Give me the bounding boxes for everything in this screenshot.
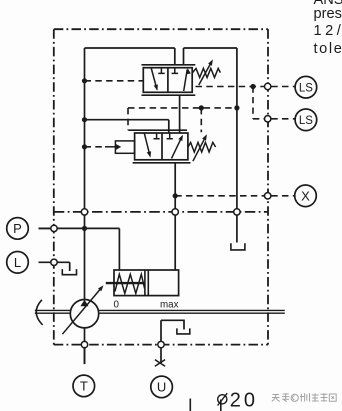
text 0 and max: [114, 299, 179, 310]
compensator spring: [115, 274, 145, 293]
valve V2 left box blocked port T: [154, 133, 160, 139]
svg-text:P: P: [13, 221, 22, 236]
plugged port cross at U: [155, 360, 165, 367]
wire: valve V2 bottom port to compensator: [174, 163, 176, 270]
internal divider line (dash-dot): [54, 211, 268, 213]
compensator cylinder body: [114, 270, 179, 296]
svg-text:T: T: [80, 379, 88, 394]
svg-text:LS: LS: [299, 83, 313, 95]
svg-text:U: U: [157, 380, 166, 395]
watermark (stylized grey marks): [272, 393, 336, 401]
dash to X label: [271, 195, 294, 197]
wire: P feed to valve V2 top: [85, 120, 169, 133]
note text top right (clipped): [314, 0, 342, 8]
compensator rod: [106, 282, 145, 284]
valve V2 body: [135, 133, 188, 160]
wire: P riser (pump pressure line): [84, 48, 86, 300]
valve V2 right box blocked port T: [167, 133, 173, 139]
valve V2 right box arrow: [172, 136, 183, 158]
compensator piston: [145, 270, 148, 296]
svg-text:LS: LS: [299, 115, 313, 127]
dash to LS1 label: [271, 86, 294, 88]
valve V1 left box arrow: [151, 68, 157, 90]
pump variable displacement arrow: [62, 288, 101, 334]
valve V2 left box arrow: [144, 133, 150, 155]
wire: P label lead: [39, 227, 55, 229]
valve V2 lower bar: [133, 162, 191, 164]
enclosure border (dash-dot): [54, 29, 268, 344]
drain tank symbol below divider right: [231, 243, 245, 250]
wire: valve V1 bottom port to valve V2: [179, 95, 181, 133]
valve V2 pilot arrow: [115, 144, 121, 150]
port label texts: [13, 83, 313, 395]
valve V1 left box blocked port T: [158, 68, 165, 74]
port label circles: [7, 76, 317, 397]
valve V1 right box blocked port T: [172, 68, 179, 74]
wire: P port line: [39, 228, 120, 270]
pump circle: [70, 300, 98, 328]
wire: top line A: [85, 48, 175, 65]
drive shaft double line: [35, 310, 285, 313]
drain symbol at L: [62, 269, 76, 275]
valve V2 upper bar: [128, 129, 187, 131]
valve V1 upper bar: [142, 64, 196, 66]
valve V1 right box arrow: [184, 70, 188, 92]
junction dots: [82, 78, 256, 231]
valve V1 adjustment arrow: [199, 62, 212, 85]
valve V2 adjustment arrow: [193, 137, 206, 161]
pilot line to valve V1 left (dashed): [85, 80, 144, 82]
valve V1 body: [143, 68, 192, 93]
svg-text:X: X: [301, 189, 310, 204]
wire: T port stub: [84, 348, 86, 364]
wire: top line B to right riser: [184, 48, 237, 243]
pilot line LS1 (dashed): [196, 86, 265, 88]
wire: L port line to drain: [39, 262, 70, 271]
diameter 20 annotation: [218, 395, 227, 404]
valve V2 spring: [188, 142, 216, 152]
pilot line LS to spring side (dashed): [128, 108, 237, 132]
pilot line to valve V2 left (dashed): [85, 146, 106, 148]
pilot line LS2 branch (dashed): [253, 87, 264, 119]
valve V1 lower bar: [142, 94, 196, 96]
svg-text:max: max: [160, 299, 179, 310]
svg-text:0: 0: [114, 299, 120, 310]
shaft coupling arc: [36, 300, 42, 325]
drain tank symbol at U line: [177, 328, 190, 334]
valve V1 spring: [192, 68, 220, 77]
dash to LS2 label: [271, 118, 294, 120]
svg-text:L: L: [14, 255, 21, 270]
port circles on boundaries: [51, 83, 271, 348]
pilot line to X port (dashed): [175, 195, 264, 197]
svg-text:20: 20: [230, 389, 258, 411]
valve V2 pilot operator cap: [115, 141, 134, 153]
pump flow triangle: [80, 300, 88, 306]
wire: pump suction to T: [84, 328, 86, 364]
dimension extension ticks: [190, 399, 221, 411]
wire: U drain line: [161, 320, 184, 363]
